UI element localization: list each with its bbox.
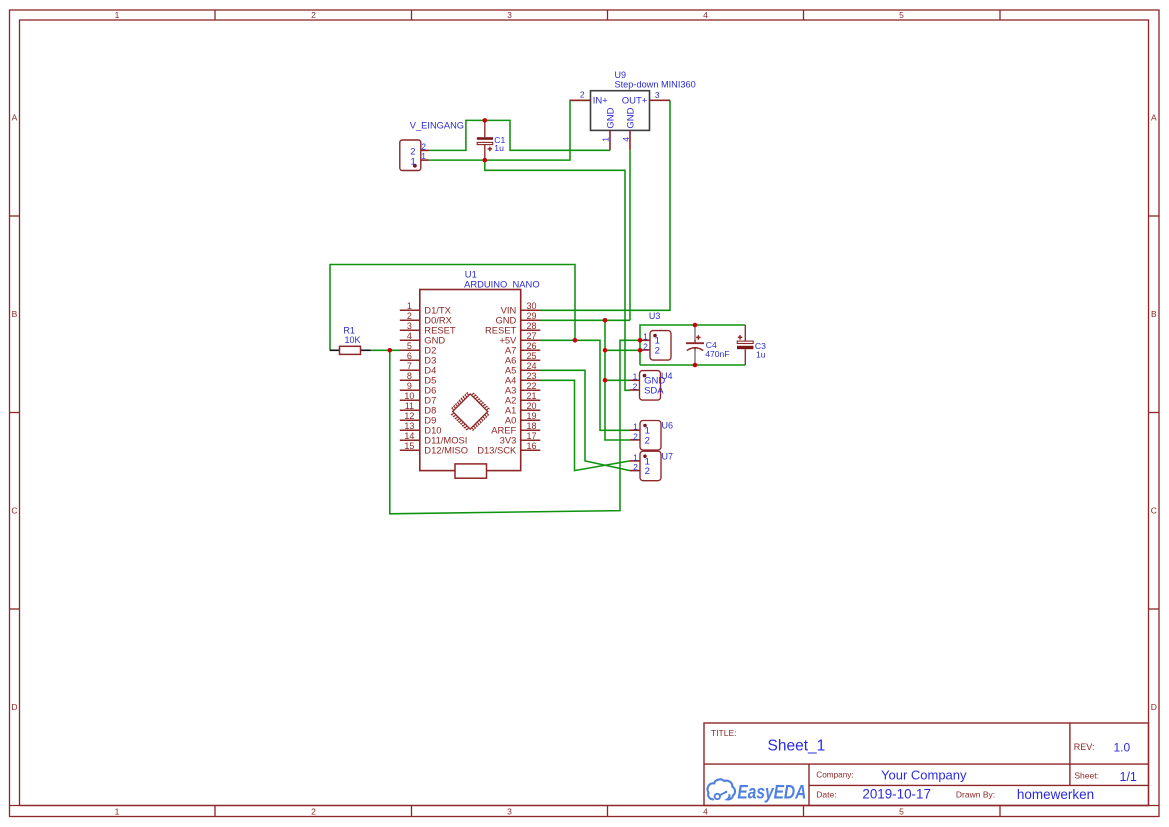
U1 pin 7 D4 [400, 361, 436, 376]
wire U1 pin24 A5 to U7 pin2 [540, 370, 630, 470]
U1 pin 19 A0 [505, 411, 540, 426]
wire +5V to R1 left loop [330, 265, 575, 351]
wire U3 C4 C3 top rail [640, 325, 745, 365]
svg-text:Sheet_1: Sheet_1 [768, 737, 826, 754]
svg-text:25: 25 [526, 351, 536, 361]
svg-text:24: 24 [526, 361, 536, 371]
U1 pin 22 A3 [505, 381, 540, 396]
U1 pin 4 GND [400, 331, 446, 346]
wire R1 right to U1 pin5 D2 [371, 349, 400, 351]
svg-text:2: 2 [633, 462, 638, 472]
svg-text:U9: U9 [615, 70, 627, 80]
svg-text:IN+: IN+ [593, 96, 609, 107]
U7 body [640, 451, 661, 481]
svg-text:4: 4 [407, 331, 412, 341]
svg-text:18: 18 [526, 421, 536, 431]
svg-text:22: 22 [526, 381, 536, 391]
svg-text:GND: GND [606, 107, 617, 128]
svg-text:26: 26 [526, 341, 536, 351]
title block [704, 723, 1149, 806]
svg-text:29: 29 [526, 311, 536, 321]
svg-text:1: 1 [601, 137, 611, 142]
U1 pin 16 D13/SCK [477, 441, 540, 456]
svg-text:1: 1 [421, 151, 426, 161]
svg-text:Your Company: Your Company [881, 768, 967, 783]
svg-text:6: 6 [407, 351, 412, 361]
U9 pin 1 GND [601, 107, 617, 150]
U6 pin 1 1 [630, 422, 650, 437]
C3 reference label [755, 341, 766, 351]
capacitor C3 1u [737, 325, 766, 365]
svg-text:Date:: Date: [816, 790, 836, 800]
U1 body [420, 290, 521, 471]
U1 pin 21 A2 [505, 391, 540, 406]
wire V_EINGANG pin1 to U9 pin2 IN+ [429, 100, 590, 160]
U1 pin 27 +5V [499, 331, 540, 346]
junction GND/U4 pin1 [603, 378, 608, 383]
U1 pin 14 D11/MOSI [400, 431, 468, 446]
connector U6 [630, 421, 673, 451]
wire C1 bottom to U4 pin2 SDA [485, 160, 630, 390]
U9 pin 2 IN+ [570, 90, 608, 107]
U1 chip glyph [451, 392, 490, 431]
svg-text:1/1: 1/1 [1120, 770, 1137, 784]
svg-text:13: 13 [404, 421, 414, 431]
U1 pin 13 D10 [400, 421, 442, 436]
U1 pin 24 A5 [505, 361, 540, 376]
U9 body [591, 91, 650, 131]
V_EINGANG pin 1 [411, 151, 430, 167]
svg-text:Drawn By:: Drawn By: [956, 790, 995, 800]
svg-text:8: 8 [407, 371, 412, 381]
svg-text:19: 19 [526, 411, 536, 421]
capacitor C4 470nF [686, 325, 730, 365]
U1 pin 10 D7 [400, 391, 436, 406]
wire U1 pin23 A4 to U7 pin1 [540, 380, 630, 470]
svg-text:2: 2 [633, 431, 638, 441]
svg-text:TITLE:: TITLE: [711, 728, 737, 738]
svg-text:D: D [1151, 702, 1157, 712]
junction C4 bottom [693, 363, 698, 368]
svg-text:2019-10-17: 2019-10-17 [862, 787, 931, 802]
U1 value ARDUINO_NANO [464, 279, 540, 290]
connector U4 [630, 371, 673, 401]
U3 pin 2 2 [640, 341, 660, 356]
svg-text:2: 2 [645, 435, 650, 446]
svg-text:U3: U3 [649, 311, 661, 321]
U9 pin 4 GND [621, 107, 637, 150]
U6 body [640, 421, 661, 451]
svg-text:2: 2 [311, 10, 316, 20]
svg-text:10K: 10K [345, 335, 361, 345]
C1 reference label [494, 135, 505, 145]
svg-text:D12/MISO: D12/MISO [424, 445, 468, 456]
R1 value 10K [345, 335, 361, 345]
wire GND vertical bus to U6 pin2 [605, 320, 630, 440]
svg-text:U6: U6 [662, 421, 674, 431]
U7 pin 2 2 [630, 462, 650, 477]
U9 pin 3 OUT+ [622, 90, 670, 106]
IC U1 ARDUINO_NANO [400, 269, 541, 479]
wire U1 pin29 GND line [540, 319, 630, 321]
svg-text:U7: U7 [662, 451, 674, 461]
svg-text:2: 2 [655, 345, 660, 356]
svg-text:EasyEDA: EasyEDA [737, 781, 806, 803]
C3 symbol [737, 325, 753, 365]
regulator U9 Step-down MINI360 [570, 70, 696, 150]
svg-text:7: 7 [407, 361, 412, 371]
svg-text:1u: 1u [494, 143, 504, 153]
svg-text:1: 1 [633, 372, 638, 382]
U1 pin 30 VIN [501, 301, 541, 316]
U1 pin 29 GND [495, 311, 540, 326]
U7 pin 1 1 [630, 452, 650, 467]
svg-text:20: 20 [526, 401, 536, 411]
svg-text:3: 3 [507, 10, 512, 20]
junction GND/U3 pin2 [603, 348, 608, 353]
svg-text:homewerken: homewerken [1017, 787, 1094, 802]
net label V_EINGANG [410, 120, 464, 130]
U7 reference label [662, 451, 674, 461]
svg-text:1: 1 [411, 156, 416, 167]
svg-text:2: 2 [407, 311, 412, 321]
U6 pin 2 2 [630, 431, 650, 446]
C1 value 1u [494, 143, 504, 153]
svg-text:4: 4 [703, 10, 708, 20]
U1 pin 28 RESET [485, 321, 540, 336]
V_EINGANG body [400, 140, 421, 171]
svg-text:Company:: Company: [816, 771, 853, 780]
svg-text:3: 3 [507, 807, 512, 817]
U3 pin 1 1 [640, 332, 660, 347]
R1 body [330, 346, 371, 354]
svg-text:ARDUINO_NANO: ARDUINO_NANO [464, 279, 540, 290]
svg-text:4: 4 [703, 807, 708, 817]
U1 usb connector glyph [455, 464, 487, 478]
U3 reference label [649, 311, 661, 321]
U1 pin 18 AREF [491, 421, 540, 436]
svg-text:3: 3 [407, 321, 412, 331]
svg-text:V_EINGANG: V_EINGANG [410, 120, 464, 130]
junction GND x605 [603, 318, 608, 323]
U9 value Step-down MINI360 [615, 79, 696, 89]
capacitor C1 1u [477, 120, 506, 160]
wire V_EINGANG pin2 to U9 pin1 GND [429, 120, 610, 150]
wire U1 pin27 +5V to U6 pin1 [540, 340, 630, 430]
svg-text:Sheet:: Sheet: [1074, 770, 1099, 780]
U1 pin 2 D0/RX [400, 311, 453, 326]
svg-text:11: 11 [405, 401, 414, 411]
wire U9 pin3 OUT+ to U1 pin30 VIN [540, 100, 670, 310]
wire D2 net bottom loop to U3 pin1 [390, 340, 640, 514]
svg-text:23: 23 [526, 371, 536, 381]
U6 reference label [662, 421, 674, 431]
svg-text:2: 2 [311, 807, 316, 817]
connector U7 [630, 451, 673, 481]
wire GND branch to U3 pin2 [605, 349, 640, 351]
junction C4 top [693, 323, 698, 328]
U3 body [650, 331, 671, 361]
U4 pin 2 SDA [630, 381, 665, 396]
C4 symbol [686, 325, 704, 365]
U1 pin 20 A1 [505, 401, 540, 416]
svg-text:3: 3 [655, 90, 660, 100]
U1 pin 3 RESET [400, 321, 456, 336]
junction R1/D2 [388, 348, 393, 353]
svg-text:OUT+: OUT+ [622, 96, 648, 107]
svg-text:16: 16 [526, 441, 536, 451]
U1 reference label [465, 269, 477, 280]
C4 value 470nF [705, 349, 729, 359]
svg-text:5: 5 [899, 10, 904, 20]
svg-text:SDA: SDA [644, 385, 664, 396]
svg-text:5: 5 [407, 341, 412, 351]
U1 pin 26 A7 [505, 341, 540, 356]
connector P1 V_EINGANG [400, 120, 464, 170]
svg-text:470nF: 470nF [705, 349, 729, 359]
junction +5V/R1 [573, 338, 578, 343]
svg-text:C: C [1151, 506, 1157, 516]
U1 pin 23 A4 [505, 371, 540, 386]
junction U3 pin1 [638, 338, 643, 343]
svg-text:1: 1 [643, 332, 648, 342]
U1 pin 1 D1/TX [400, 301, 452, 316]
svg-text:27: 27 [526, 331, 536, 341]
svg-text:15: 15 [404, 441, 414, 451]
junction C1 top [483, 118, 488, 123]
U1 pin 11 D8 [400, 401, 436, 416]
svg-text:Step-down MINI360: Step-down MINI360 [615, 79, 696, 89]
svg-text:B: B [12, 309, 18, 319]
svg-text:2: 2 [645, 466, 650, 477]
U1 pin 8 D5 [400, 371, 436, 386]
svg-text:2: 2 [421, 141, 426, 151]
wire GND branch to U4 pin1 [605, 379, 630, 381]
svg-text:1.0: 1.0 [1114, 740, 1131, 754]
svg-text:1: 1 [115, 807, 120, 817]
svg-text:D13/SCK: D13/SCK [477, 445, 517, 456]
svg-text:12: 12 [404, 411, 414, 421]
junction C1 bottom [483, 158, 488, 163]
connector U3 [640, 311, 671, 360]
svg-text:1u: 1u [756, 350, 766, 360]
svg-text:17: 17 [526, 431, 536, 441]
svg-text:D: D [11, 702, 17, 712]
U1 pin 9 D6 [400, 381, 436, 396]
U1 pin 25 A6 [505, 351, 540, 366]
svg-text:C: C [11, 506, 17, 516]
svg-text:1: 1 [633, 422, 638, 432]
junction U3 pin2 [638, 348, 643, 353]
wire C4 C3 bottom rail [640, 364, 745, 366]
svg-text:REV:: REV: [1074, 742, 1095, 752]
svg-text:10: 10 [404, 391, 414, 401]
U1 pin 15 D12/MISO [400, 441, 468, 456]
svg-text:1: 1 [633, 452, 638, 462]
C4 reference label [706, 340, 717, 350]
svg-text:1: 1 [407, 301, 412, 311]
svg-text:2: 2 [633, 381, 638, 391]
svg-text:GND: GND [626, 107, 637, 128]
svg-text:2: 2 [580, 90, 585, 100]
U4 reference label [661, 371, 673, 381]
U4 body [640, 371, 661, 401]
svg-text:21: 21 [526, 391, 536, 401]
V_EINGANG pin 2 [410, 141, 429, 157]
U4 pin 1 GND [630, 372, 666, 387]
svg-text:14: 14 [404, 431, 414, 441]
svg-text:2: 2 [643, 341, 648, 351]
svg-text:9: 9 [407, 381, 412, 391]
U1 pin 6 D3 [400, 351, 436, 366]
U9 reference label [615, 70, 627, 80]
wire U9 pin4 GND down to GND line [629, 150, 631, 320]
svg-text:30: 30 [526, 301, 536, 311]
svg-text:28: 28 [526, 321, 536, 331]
svg-text:B: B [1151, 309, 1157, 319]
C3 value 1u [756, 350, 766, 360]
svg-text:A: A [12, 113, 18, 123]
U1 pin 17 3V3 [500, 431, 541, 446]
resistor R1 10K [330, 326, 371, 355]
R1 reference label [343, 326, 355, 336]
U1 pin 5 D2 [400, 341, 436, 356]
svg-text:R1: R1 [343, 326, 355, 336]
svg-text:1: 1 [115, 10, 120, 20]
svg-text:A: A [1151, 113, 1157, 123]
EasyEDA logo [708, 779, 807, 802]
U1 pin 12 D9 [400, 411, 436, 426]
C1 symbol [477, 120, 493, 160]
svg-text:4: 4 [621, 137, 631, 142]
svg-text:5: 5 [899, 807, 904, 817]
